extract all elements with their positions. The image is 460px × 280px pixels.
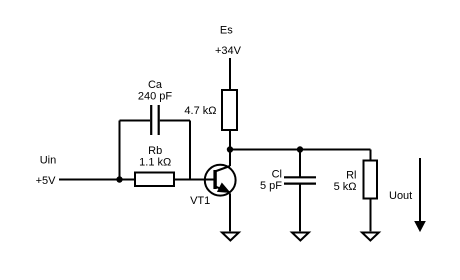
wire Rb to base [175, 179, 214, 181]
wire collector node horizontal [230, 149, 371, 151]
svg-text:Rb: Rb [148, 145, 162, 157]
svg-text:+34V: +34V [215, 45, 242, 57]
svg-text:240 pF: 240 pF [138, 91, 173, 103]
resistor Rb [135, 173, 174, 187]
transistor VT1 body [205, 165, 236, 196]
svg-text:Uout: Uout [389, 190, 412, 202]
wire Es supply to resistor [229, 58, 231, 90]
wire Cl bottom [299, 185, 301, 232]
capacitor Cl plates [284, 177, 316, 183]
transistor VT1 base wire inside [205, 179, 214, 181]
svg-text:Rl: Rl [346, 169, 356, 181]
wire capacitor loop top left [120, 120, 151, 122]
svg-text:Es: Es [220, 25, 233, 37]
resistor 4.7 kOhm (collector load) [222, 90, 237, 130]
Uout arrowhead [415, 222, 425, 232]
Uout arrow line [419, 158, 421, 223]
wire Cl top [299, 150, 301, 177]
svg-text:5 pF: 5 pF [260, 180, 282, 192]
wire emitter to ground [229, 193, 231, 231]
resistor Rl [364, 161, 378, 199]
transistor VT1 emitter diagonal [216, 187, 230, 193]
wire collector vertical [229, 150, 231, 167]
svg-text:Ca: Ca [148, 79, 163, 91]
node junction dot Cl tap [297, 146, 303, 152]
transistor VT1 base bar [213, 170, 216, 189]
wire capacitor loop left side [119, 121, 121, 180]
wire capacitor loop top right [160, 120, 190, 122]
wire capacitor loop right side [189, 121, 191, 180]
svg-text:Cl: Cl [272, 169, 282, 181]
node junction dot input [116, 176, 122, 182]
svg-text:4.7 kΩ: 4.7 kΩ [184, 105, 216, 117]
svg-text:VT1: VT1 [190, 195, 210, 207]
node junction dot collector [227, 146, 233, 152]
transistor VT1 emitter arrowhead [218, 183, 230, 192]
svg-text:+5V: +5V [36, 175, 57, 187]
capacitor Ca plates [151, 105, 159, 135]
svg-text:5 kΩ: 5 kΩ [334, 181, 357, 193]
transistor VT1 collector diagonal [216, 166, 230, 171]
ground under Rl [362, 233, 379, 241]
ground under Cl [292, 233, 309, 241]
svg-text:Uin: Uin [40, 155, 57, 167]
ground under VT1 [222, 233, 239, 241]
wire node to Rl [370, 150, 372, 161]
wire resistor to collector node [229, 130, 231, 150]
wire input [59, 179, 120, 181]
wire Rl to ground [370, 199, 372, 232]
wire junction to Rb [120, 179, 136, 181]
svg-text:1.1 kΩ: 1.1 kΩ [139, 156, 171, 168]
